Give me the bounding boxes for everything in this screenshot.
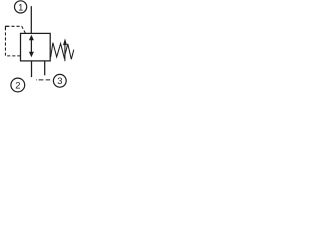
- port 1 label circle: [15, 1, 27, 13]
- pilot line corner dash: [5, 26, 8, 29]
- svg-text:2: 2: [15, 79, 20, 90]
- port 2 label circle: [11, 78, 25, 92]
- spring adjustment arrow shaft: [64, 44, 66, 61]
- spring adjustment arrow head: [63, 38, 67, 45]
- svg-text:3: 3: [57, 75, 62, 86]
- svg-text:1: 1: [18, 1, 23, 12]
- valve body U1: [21, 33, 51, 61]
- pilot line dashed: [5, 26, 25, 56]
- drain dashed line to port 3: [36, 79, 52, 81]
- port 3 label circle: [53, 74, 66, 87]
- port 1 line: [30, 6, 32, 33]
- port 2 line: [31, 61, 33, 77]
- spring: [51, 43, 74, 60]
- drain line from body: [44, 61, 46, 75]
- flow arrow down head: [29, 52, 34, 58]
- flow arrow shaft: [30, 40, 32, 53]
- flow arrow up head: [29, 35, 34, 41]
